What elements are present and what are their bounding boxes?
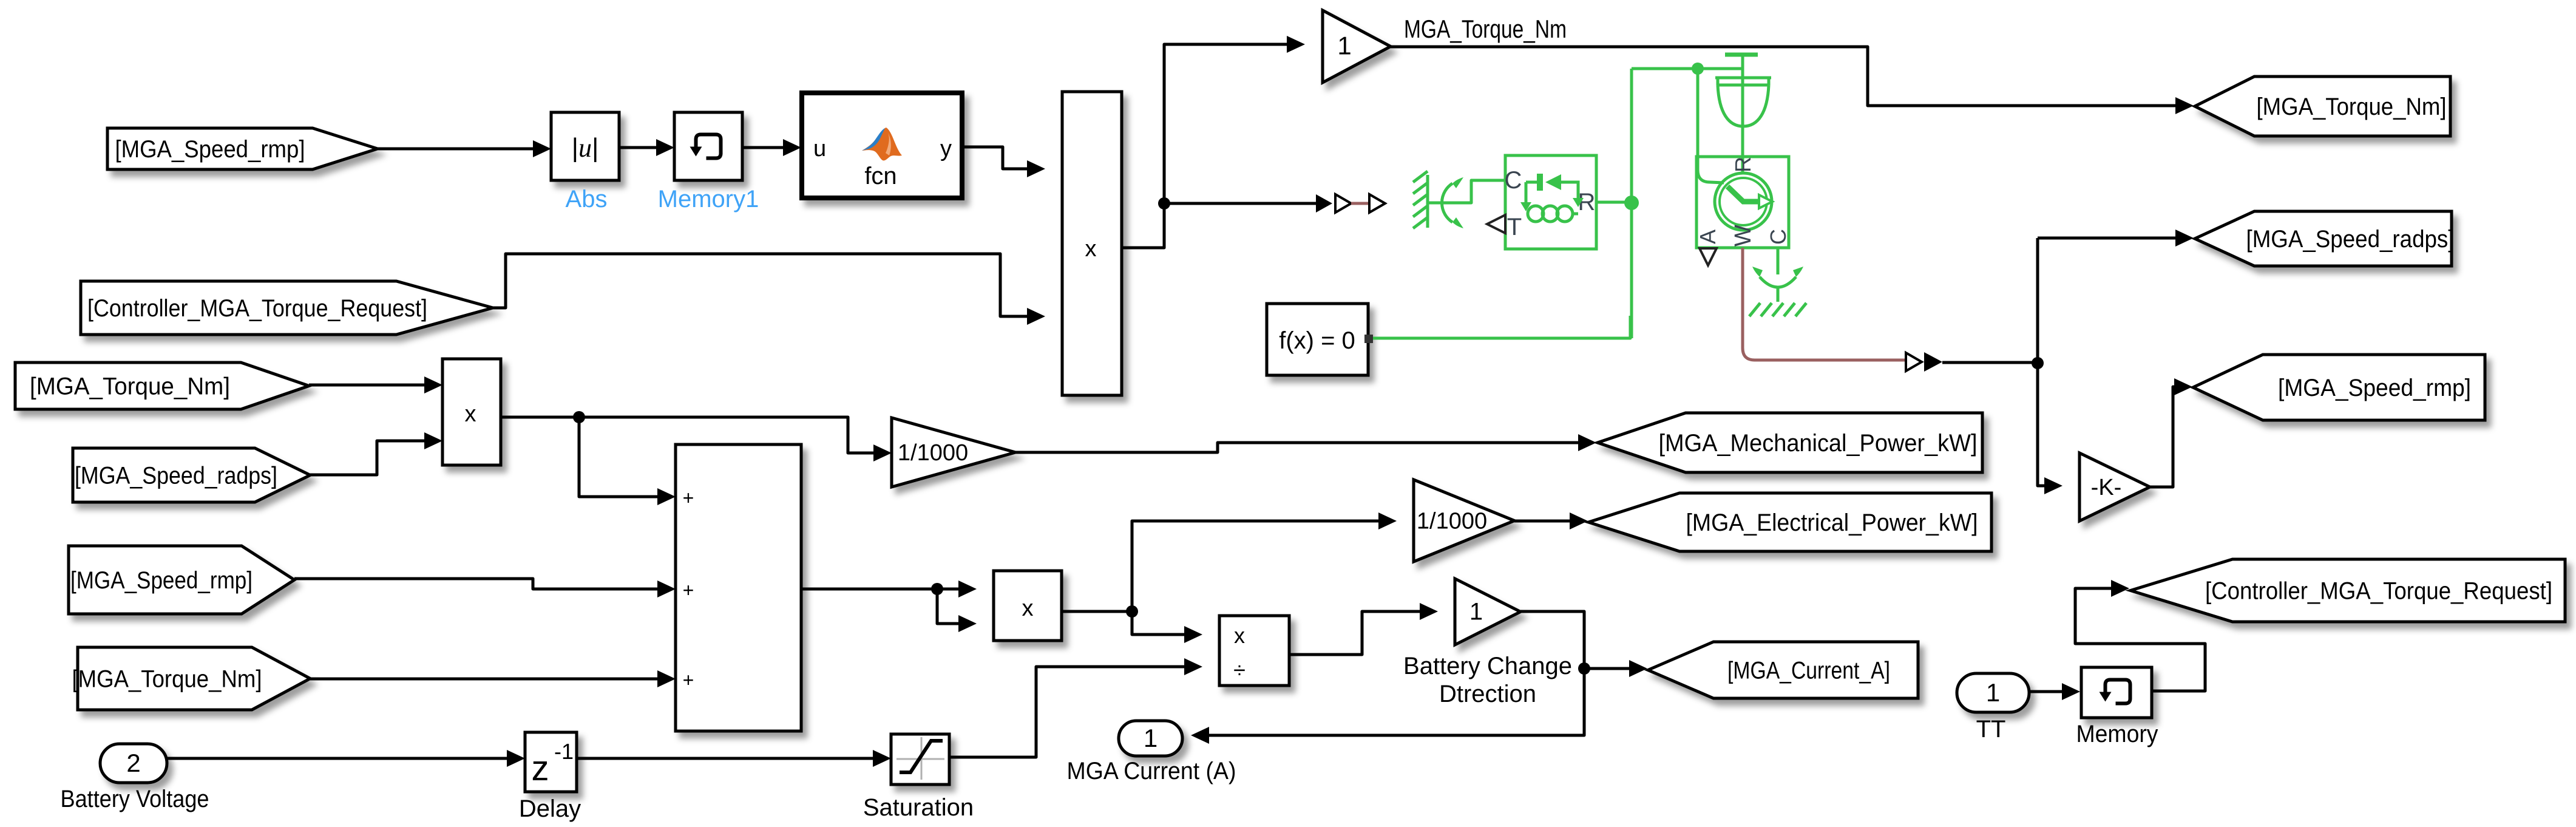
svg-text:1: 1 — [1144, 724, 1158, 752]
svg-text:[MGA_Speed_radps]: [MGA_Speed_radps] — [2246, 226, 2455, 253]
svg-text:[Controller_MGA_Torque_Request: [Controller_MGA_Torque_Request] — [87, 295, 427, 322]
svg-text:[MGA_Torque_Nm]: [MGA_Torque_Nm] — [2257, 94, 2447, 120]
svg-text:Dtrection: Dtrection — [1439, 681, 1536, 707]
svg-text:[MGA_Speed_rmp]: [MGA_Speed_rmp] — [115, 136, 305, 163]
svg-text:+: + — [683, 669, 694, 691]
svg-text:[MGA_Mechanical_Power_kW]: [MGA_Mechanical_Power_kW] — [1659, 430, 1978, 457]
svg-text:y: y — [940, 136, 952, 162]
wire F6 to sum in3 — [310, 678, 659, 681]
from tag F1 [MGA_Speed_rmp] — [107, 128, 378, 169]
wire branch down to sensor — [1698, 69, 1724, 183]
svg-text:1/1000: 1/1000 — [1417, 509, 1487, 534]
wire junction up to elec gain — [1132, 521, 1380, 611]
svg-text:Battery Voltage: Battery Voltage — [61, 786, 209, 812]
goto tag [MGA_Mechanical_Power_kW] — [1598, 413, 1982, 472]
svg-text:2: 2 — [126, 749, 140, 777]
wire converter to node — [1942, 361, 2038, 364]
green vertical bus — [1630, 69, 1633, 338]
svg-text:[MGA_Current_A]: [MGA_Current_A] — [1727, 658, 1890, 684]
junction on P1 branch — [1158, 197, 1170, 209]
svg-text:TT: TT — [1976, 716, 2006, 743]
block product P3 — [994, 571, 1062, 641]
block memory — [2081, 667, 2152, 718]
svg-text:x: x — [1022, 596, 1034, 621]
from tag F4 [MGA_Speed_radps] — [73, 448, 310, 502]
block ideal torque source — [1505, 155, 1596, 249]
PS-simulink converter — [1906, 353, 1922, 371]
wire junction down to divide — [1132, 611, 1185, 635]
svg-text:Delay: Delay — [519, 795, 581, 822]
wire F5 to sum in2 — [294, 579, 659, 589]
svg-text:x: x — [465, 401, 476, 427]
svg-text:-1: -1 — [554, 739, 574, 764]
wire saturation to divide in2 — [949, 667, 1185, 757]
wire branch to P3 in2 — [937, 589, 960, 624]
wire sum out to product P3 — [801, 588, 960, 591]
block MATLAB Function fcn — [802, 93, 962, 198]
svg-text:A: A — [1695, 230, 1720, 244]
goto tag [MGA_Speed_radps] — [2195, 211, 2452, 266]
wire torque source R to node — [1596, 201, 1632, 204]
wire P1 out up to gain G1 — [1122, 44, 1288, 248]
svg-text:Saturation: Saturation — [863, 794, 974, 821]
svg-text:[MGA_Speed_rmp]: [MGA_Speed_rmp] — [70, 567, 253, 594]
wire P2 out to mech gain — [501, 417, 875, 453]
svg-text:T: T — [1507, 214, 1522, 240]
svg-text:Memory: Memory — [2076, 721, 2158, 747]
block inertia — [1715, 55, 1771, 174]
wire inport2 to delay — [167, 757, 508, 760]
goto tag [MGA_Electrical_Power_kW] — [1588, 493, 1991, 551]
block sum (Add) — [676, 444, 801, 731]
inport 2 Battery Voltage — [100, 744, 167, 783]
wire to goto MGA_Speed_radps — [2038, 237, 2177, 240]
svg-text:Battery Change: Battery Change — [1403, 653, 1572, 679]
wire Abs to Memory1 — [619, 146, 657, 149]
svg-text:z: z — [532, 749, 549, 788]
block product P2 — [442, 359, 501, 465]
svg-text:Abs: Abs — [566, 186, 608, 213]
inport 1 TT — [1957, 673, 2029, 712]
svg-text:W: W — [1730, 225, 1756, 247]
block Memory1 — [674, 112, 742, 180]
wire F4 to product P2 in2 — [310, 441, 425, 475]
gain battery change direction — [1455, 579, 1520, 645]
wire junction down to sum in1 — [579, 417, 659, 497]
junction current branch — [1578, 662, 1590, 675]
port T triangle — [1487, 215, 1505, 233]
junction speed node — [2032, 357, 2044, 369]
wire memory to goto controller — [2075, 588, 2205, 691]
wire -K- to goto MGA_Speed_rmp — [2150, 387, 2176, 487]
svg-text:Memory1: Memory1 — [658, 186, 759, 213]
wire fcn y to product P1 — [962, 147, 1028, 169]
svg-text:÷: ÷ — [1233, 658, 1246, 682]
gain mech 1/1000 — [892, 418, 1015, 487]
svg-text:1: 1 — [1986, 678, 2000, 707]
wire F2 to product P1 in2 — [493, 254, 1028, 316]
wire Memory1 to fcn — [742, 146, 784, 149]
svg-text:C: C — [1505, 167, 1522, 194]
wire P3 out — [1062, 610, 1132, 613]
PS wire sensor W to converter — [1743, 248, 1907, 360]
wire divide out to battery gain — [1289, 611, 1421, 655]
wire branch to goto current — [1584, 667, 1630, 670]
block product P1 (tall) — [1062, 92, 1122, 395]
wire node to gain -K- — [2038, 363, 2046, 486]
rotational ground under sensor — [1749, 267, 1806, 316]
svg-text:[MGA_Electrical_Power_kW]: [MGA_Electrical_Power_kW] — [1686, 509, 1978, 536]
svg-text:u: u — [813, 136, 826, 162]
wire F3 to product P2 — [309, 384, 425, 387]
svg-text:[MGA_Torque_Nm]: [MGA_Torque_Nm] — [72, 666, 262, 693]
wire mech gain to goto — [1015, 443, 1579, 452]
svg-text:f(x) = 0: f(x) = 0 — [1279, 327, 1355, 354]
green node junction — [1624, 196, 1639, 210]
block rotational motion sensor — [1696, 157, 1789, 248]
svg-text:+: + — [683, 579, 694, 601]
svg-text:1/1000: 1/1000 — [898, 440, 968, 466]
svg-text:1: 1 — [1337, 32, 1351, 60]
outport 1 MGA Current (A) — [1119, 721, 1182, 756]
goto tag [Controller_MGA_Torque_Request] — [2130, 559, 2565, 622]
wire branch to PS converter — [1164, 202, 1316, 205]
gain elec 1/1000 — [1414, 480, 1514, 562]
svg-text:[MGA_Speed_radps]: [MGA_Speed_radps] — [75, 463, 277, 489]
wire delay to saturation — [577, 757, 874, 760]
svg-text:x: x — [1234, 623, 1245, 648]
block solver configuration f(x)=0 — [1267, 304, 1368, 375]
from tag F5 [MGA_Speed_rmp] — [69, 546, 294, 614]
svg-text:|u|: |u| — [572, 133, 599, 163]
junction P3 out — [1126, 605, 1138, 618]
vertical speed bus — [2036, 238, 2039, 486]
block divide — [1219, 616, 1289, 686]
green wire solver to bus — [1373, 316, 1630, 338]
svg-text:MGA Current (A): MGA Current (A) — [1067, 758, 1236, 784]
wire battery gain loop to outport — [1209, 611, 1584, 735]
svg-text:MGA_Torque_Nm: MGA_Torque_Nm — [1404, 15, 1567, 43]
goto tag [MGA_Current_A] — [1648, 642, 1918, 698]
wire TT to memory — [2029, 690, 2063, 693]
port A triangle — [1700, 248, 1717, 265]
green junction at sensor branch — [1692, 63, 1704, 75]
wire sensor C to rotational ground — [1777, 248, 1780, 274]
svg-text:C: C — [1766, 229, 1791, 245]
svg-text:fcn: fcn — [864, 163, 897, 189]
wire reference to torque source C — [1452, 180, 1505, 203]
junction sum out — [931, 583, 943, 595]
gain G1 (value 1) — [1323, 10, 1391, 83]
wire elec gain to goto — [1514, 520, 1571, 523]
svg-text:+: + — [683, 487, 694, 509]
junction P2 out — [573, 411, 585, 423]
svg-text:[Controller_MGA_Torque_Request: [Controller_MGA_Torque_Request] — [2205, 578, 2552, 605]
wire G1 to goto MGA_Torque_Nm — [1391, 47, 2177, 106]
svg-text:[MGA_Speed_rmp]: [MGA_Speed_rmp] — [2278, 375, 2471, 401]
block delay — [525, 732, 577, 792]
from tag F6 [MGA_Torque_Nm] — [78, 647, 310, 710]
green top wire to inertia — [1632, 67, 1743, 70]
goto tag [MGA_Speed_rmp] — [2193, 355, 2485, 420]
block saturation — [891, 734, 949, 784]
svg-text:[MGA_Torque_Nm]: [MGA_Torque_Nm] — [30, 373, 230, 400]
simulink-PS converter — [1335, 194, 1351, 213]
svg-text:x: x — [1085, 236, 1097, 262]
svg-text:R: R — [1730, 157, 1755, 172]
goto tag [MGA_Torque_Nm] — [2195, 77, 2450, 136]
svg-text:-K-: -K- — [2091, 475, 2122, 500]
mechanical rotational reference (left wall) — [1413, 171, 1463, 228]
from tag F2 [Controller_MGA_Torque_Request] — [81, 281, 493, 335]
svg-text:1: 1 — [1469, 599, 1483, 625]
gain -K- — [2079, 453, 2150, 521]
from tag F3 [MGA_Torque_Nm] — [15, 362, 309, 409]
wire F1 to Abs — [378, 148, 534, 151]
block Abs — [551, 112, 619, 180]
